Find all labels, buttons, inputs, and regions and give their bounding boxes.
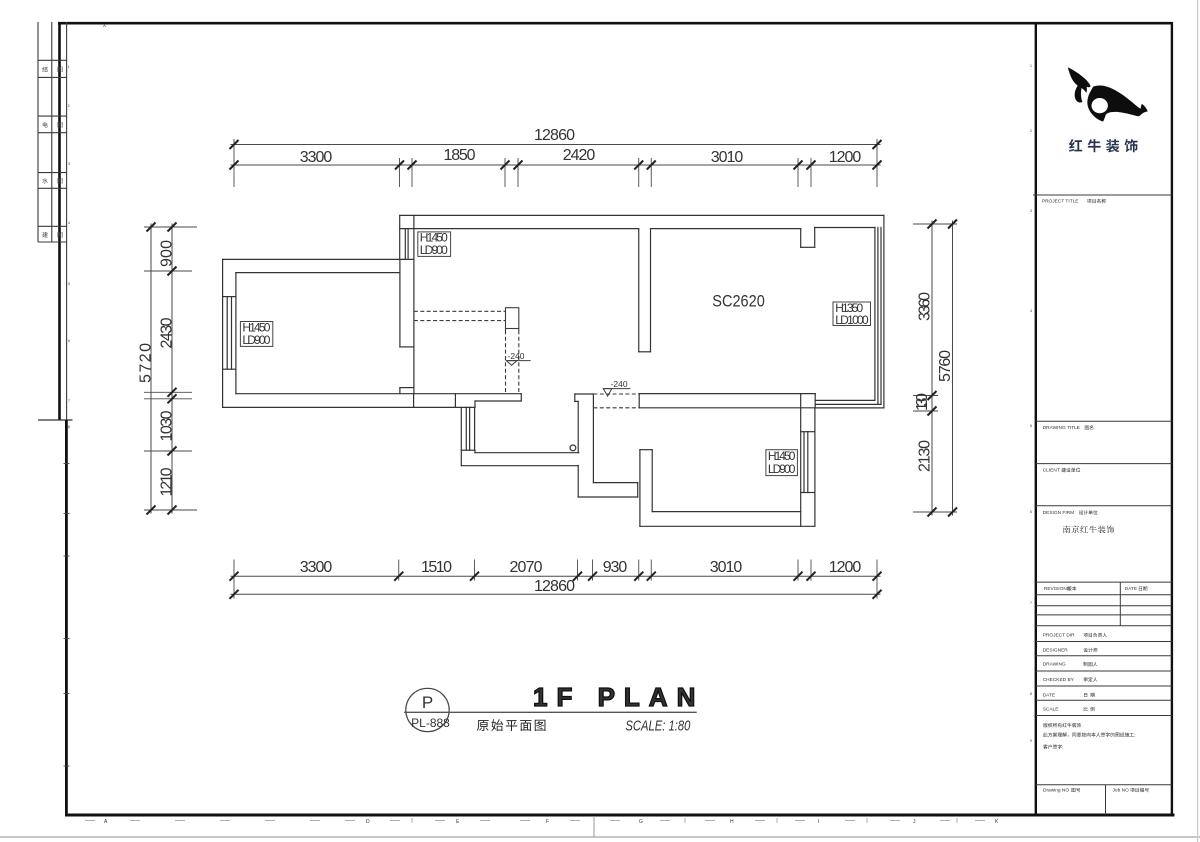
duct rect [506, 308, 519, 331]
svg-text:5: 5 [68, 282, 70, 286]
svg-text:9: 9 [1030, 739, 1032, 743]
svg-text:1F PLAN: 1F PLAN [533, 682, 704, 712]
svg-text:-240: -240 [611, 379, 628, 389]
svg-text:3010: 3010 [711, 149, 744, 166]
svg-text:2430: 2430 [159, 317, 176, 348]
left stub [639, 450, 641, 527]
svg-text:3300: 3300 [300, 149, 333, 166]
tiny index marks [68, 64, 1032, 743]
svg-text:6: 6 [1030, 510, 1032, 514]
top chain [231, 164, 881, 166]
svg-text:1030: 1030 [159, 410, 176, 441]
svg-text:12860: 12860 [534, 127, 575, 144]
svg-text:2: 2 [68, 104, 70, 108]
svg-text:P: P [422, 693, 433, 712]
svg-text:SCALE: 1:80: SCALE: 1:80 [625, 717, 691, 734]
svg-text:DESIGN FIRM: DESIGN FIRM [1043, 510, 1074, 516]
notch in bottom wall [399, 388, 401, 394]
band B2 (SC bottom / room2 top) [639, 393, 815, 395]
svg-text:2130: 2130 [917, 440, 934, 472]
bottom overall [231, 593, 881, 595]
svg-text:-240: -240 [508, 351, 525, 361]
svg-text:LD900: LD900 [420, 243, 448, 257]
top band A [400, 214, 884, 216]
title block left edge [1035, 22, 1037, 815]
window label SC room [833, 301, 871, 327]
left border lower [65, 420, 68, 816]
bottom wall [236, 393, 521, 395]
svg-text:7: 7 [68, 399, 70, 403]
left window caps + glass [223, 296, 236, 298]
bottom border [65, 814, 1175, 817]
svg-text:5720: 5720 [138, 343, 155, 383]
svg-text:7: 7 [1030, 601, 1032, 605]
strip boxes [38, 59, 67, 61]
dimension extension lines [144, 139, 957, 599]
svg-text:I: I [818, 819, 819, 825]
binding strip [38, 22, 67, 420]
right window (SC) [874, 228, 876, 401]
sill lines bottom right of SC room [815, 399, 875, 401]
drawing number bubble P / PL-888 [406, 688, 449, 731]
nook left wall [574, 394, 576, 401]
level symbol 2 [603, 389, 630, 397]
svg-text:DRAWING TITLE: DRAWING TITLE [1043, 425, 1080, 431]
svg-text:DESIGNER: DESIGNER [1043, 648, 1069, 654]
svg-text:SC2620: SC2620 [712, 292, 765, 311]
notch under band A [800, 229, 802, 248]
bottom-right room bottom wall [652, 511, 801, 513]
svg-text:6: 6 [68, 339, 70, 343]
dimension tick slashes [147, 140, 958, 599]
svg-text:4: 4 [1030, 309, 1032, 313]
window W1 glass [404, 229, 406, 260]
svg-text:PROJECT TITLE: PROJECT TITLE [1042, 199, 1079, 205]
svg-text:3300: 3300 [300, 559, 333, 576]
top overall [231, 144, 881, 146]
svg-text:LD900: LD900 [768, 462, 796, 476]
svg-text:1200: 1200 [829, 559, 862, 576]
window label bottom-right room [766, 449, 798, 476]
title block texts [1042, 199, 1149, 794]
svg-text:2070: 2070 [510, 559, 543, 576]
svg-text:8: 8 [68, 425, 70, 429]
page scan artifacts [0, 836, 1200, 838]
svg-text:CLIENT: CLIENT [1043, 468, 1060, 474]
nook bottom band [593, 482, 637, 484]
right chain / overall [931, 221, 933, 516]
svg-text:3: 3 [68, 162, 70, 166]
jog line [38, 419, 73, 421]
left border upper (binding strip thick line) [58, 22, 61, 420]
window label top wall [418, 231, 451, 257]
svg-text:2420: 2420 [563, 147, 596, 164]
svg-text:D: D [366, 819, 370, 825]
stairs / bay below bottom wall [460, 407, 462, 465]
corridor lines [475, 452, 579, 454]
svg-text:5: 5 [1030, 424, 1032, 428]
svg-text:12860: 12860 [534, 578, 575, 595]
svg-text:Job NO: Job NO [1113, 788, 1130, 794]
company logo (red bull brush mark) [1068, 67, 1148, 121]
svg-text:1: 1 [68, 65, 70, 69]
bottom-right room right wall [800, 408, 802, 527]
svg-text:900: 900 [159, 240, 176, 267]
svg-text:3010: 3010 [710, 559, 743, 576]
svg-text:F: F [546, 819, 549, 825]
svg-text:1210: 1210 [159, 467, 176, 496]
svg-text:PL-888: PL-888 [411, 716, 450, 730]
svg-text:2: 2 [1030, 129, 1032, 133]
svg-text:CHECKED BY: CHECKED BY [1043, 677, 1075, 683]
svg-text:G: G [639, 819, 643, 825]
svg-text:PROJECT DIR: PROJECT DIR [1043, 633, 1075, 639]
right wall V1 [413, 215, 415, 393]
svg-text:1510: 1510 [421, 559, 452, 576]
window label left room [240, 321, 272, 347]
left chain / overall [171, 224, 173, 514]
svg-text:130: 130 [914, 393, 931, 411]
wall V2 [638, 229, 640, 352]
sill piece right of 475 [475, 400, 521, 402]
svg-text:^: ^ [103, 25, 106, 31]
svg-text:SCALE: SCALE [1043, 707, 1059, 713]
title block lines [1033, 195, 1172, 815]
dim texts [138, 127, 955, 595]
bottom chain [231, 575, 881, 577]
svg-text:1: 1 [1030, 64, 1032, 68]
svg-text:8: 8 [1030, 692, 1032, 696]
bottom ruler letters [104, 819, 999, 825]
svg-text:REVISIONS: REVISIONS [1044, 586, 1070, 592]
svg-text:1200: 1200 [829, 149, 862, 166]
svg-text:Drawing NO: Drawing NO [1043, 788, 1069, 794]
dimension lines [151, 145, 953, 595]
svg-text:DATE: DATE [1125, 586, 1137, 592]
floor plan line work [223, 215, 884, 526]
svg-text:3: 3 [1030, 209, 1032, 213]
svg-text:4: 4 [68, 221, 70, 225]
svg-text:1850: 1850 [444, 147, 476, 164]
top border [58, 22, 1173, 25]
svg-text:930: 930 [603, 559, 628, 576]
svg-text:LD1000: LD1000 [835, 313, 869, 327]
svg-text:DATE: DATE [1043, 692, 1055, 698]
svg-text:DRAWING: DRAWING [1043, 662, 1066, 668]
title block right edge [1171, 22, 1173, 815]
left room outer [223, 258, 414, 260]
svg-text:3360: 3360 [917, 292, 934, 321]
svg-text:H: H [730, 819, 734, 825]
svg-text:5760: 5760 [937, 350, 954, 382]
level symbol 1 [506, 361, 530, 366]
svg-text:LD900: LD900 [242, 333, 270, 347]
dashed elements [414, 311, 639, 408]
